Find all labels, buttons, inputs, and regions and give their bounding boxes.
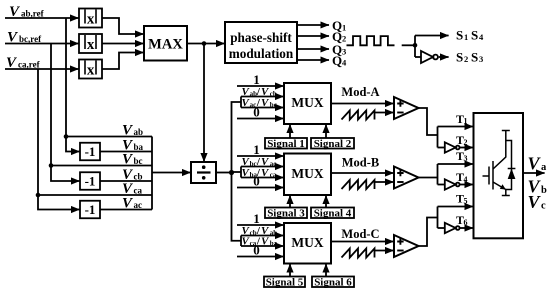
svg-text:1: 1 — [253, 72, 260, 87]
svg-text:Signal 6: Signal 6 — [314, 276, 352, 288]
wire tap Vab down to -1 block 1 — [66, 18, 80, 152]
svg-text:b: b — [541, 185, 547, 196]
-1 block 2 — [80, 172, 100, 190]
inverter for S2 S3 — [421, 51, 433, 63]
label |x| 2 — [85, 35, 96, 53]
svg-text:Signal 5: Signal 5 — [266, 276, 304, 288]
wire divider output to MUX bus — [216, 172, 232, 174]
comparator A — [394, 97, 419, 119]
wire sawtooth B to comparator — [375, 181, 394, 183]
MUX-A input Vac/Vbc — [241, 107, 284, 109]
svg-text:3: 3 — [479, 54, 483, 64]
svg-text:bc,ref: bc,ref — [19, 34, 42, 44]
IGBT emitter — [493, 182, 506, 196]
svg-text:Signal 3: Signal 3 — [267, 207, 305, 219]
Signal 6 box — [312, 277, 354, 288]
svg-text:S: S — [471, 28, 478, 43]
junction dot S branch — [413, 43, 418, 48]
bus joining six voltage rows — [151, 137, 153, 210]
abs block |x| 1 — [79, 9, 102, 28]
-1 block 3 — [80, 201, 100, 219]
svg-text:1: 1 — [464, 32, 468, 42]
svg-text:Signal 2: Signal 2 — [314, 138, 352, 150]
wire T2 into inverter — [438, 147, 445, 149]
svg-text:4: 4 — [479, 32, 484, 42]
wire T4 into inverter — [438, 184, 445, 186]
svg-text:ba: ba — [134, 142, 144, 152]
svg-text:4: 4 — [464, 175, 468, 184]
square wave symbol — [347, 36, 395, 45]
svg-text:S: S — [456, 28, 463, 43]
svg-text:x: x — [87, 37, 95, 53]
wire Mod-B to comparator B — [331, 172, 394, 174]
svg-text:4: 4 — [342, 58, 347, 68]
wire Vca,ref input — [5, 68, 79, 70]
wire Vab,ref input — [5, 17, 79, 19]
wire Mod-C to comparator C — [331, 241, 394, 243]
wire Vca row — [38, 194, 152, 196]
Signal 2 box — [311, 138, 354, 149]
MAX block — [144, 26, 187, 61]
label |x| 1 — [85, 10, 96, 28]
abs block |x| 3 — [79, 60, 102, 79]
wire into S inverter — [415, 56, 421, 58]
inverter T2 — [445, 142, 456, 152]
Signal 3 box — [265, 208, 307, 219]
label comparator B plus — [397, 170, 403, 176]
wire Signal6 to MUX-C — [325, 264, 327, 277]
MUX-A block — [284, 83, 331, 124]
svg-text:c: c — [541, 201, 546, 212]
wire splitter B vertical — [437, 164, 439, 185]
wire T5 — [438, 206, 474, 208]
stub to MUX-B fractions — [232, 171, 242, 173]
wire Vcb row — [100, 180, 152, 182]
wire comparator B output — [419, 177, 438, 179]
MUX distribution bus — [232, 102, 242, 173]
wire splitter C vertical — [437, 207, 439, 229]
wire T2 — [460, 147, 474, 149]
junction dot divider output — [229, 170, 234, 175]
svg-text:ca: ca — [134, 185, 143, 195]
wire Q3 — [297, 48, 329, 50]
MUX-C input 0 — [237, 256, 284, 258]
wire bus to divider — [152, 172, 191, 174]
svg-text:modulation: modulation — [229, 46, 294, 61]
svg-text:1: 1 — [253, 142, 260, 157]
svg-text:MUX: MUX — [291, 235, 323, 250]
svg-text:cb: cb — [134, 171, 143, 181]
wire to S2 S3 — [439, 56, 449, 58]
wire T3 — [438, 163, 474, 165]
label |x| 3 — [85, 61, 96, 79]
wire Signal5 to MUX-C — [289, 264, 291, 277]
wire Signal3 to MUX-B — [289, 195, 291, 207]
wire splitter A vertical — [437, 127, 439, 148]
svg-text:phase-shift: phase-shift — [230, 30, 292, 45]
svg-text:Mod-B: Mod-B — [342, 156, 380, 170]
svg-text:x: x — [87, 11, 95, 27]
freewheeling diode branch — [506, 141, 512, 190]
IGBT emitter arrowhead — [500, 184, 506, 189]
converter block — [474, 113, 524, 238]
Signal 4 box — [311, 208, 354, 219]
MUX-A input Vab/Vcb — [241, 96, 284, 98]
wire Q4 — [297, 59, 329, 61]
svg-text:1: 1 — [464, 116, 468, 125]
wire T4 — [460, 184, 474, 186]
wire S branch vertical — [414, 36, 416, 58]
sawtooth carrier A — [342, 111, 375, 120]
svg-text:Signal 4: Signal 4 — [314, 207, 352, 219]
svg-text:2: 2 — [464, 138, 468, 147]
svg-text:a: a — [541, 162, 547, 173]
phase-shift modulation block — [225, 22, 297, 63]
wire MAX to phase-shift modulation — [187, 43, 225, 45]
wire Q1 — [297, 24, 329, 26]
MUX-B input 1 — [237, 155, 284, 157]
label divider sign — [197, 165, 211, 179]
svg-text:-1: -1 — [85, 202, 96, 217]
svg-text:ca,ref: ca,ref — [18, 60, 41, 70]
wire abs3 to MAX — [102, 53, 144, 70]
wire abs1 to MAX — [102, 18, 144, 34]
IGBT gate bar — [488, 167, 490, 185]
wire Vac row — [100, 209, 152, 211]
label comparator C plus — [397, 238, 403, 244]
svg-text:S: S — [471, 50, 478, 65]
svg-text:1: 1 — [253, 211, 260, 226]
inverter T6 — [445, 223, 456, 233]
svg-text:0: 0 — [253, 105, 260, 120]
svg-text:3: 3 — [464, 154, 468, 163]
svg-text:MUX: MUX — [291, 166, 323, 181]
junction dot Vbc tap — [49, 163, 54, 168]
svg-text:bc: bc — [134, 156, 143, 166]
wire T1 — [438, 126, 474, 128]
svg-text:0: 0 — [253, 243, 260, 258]
divider block — [191, 162, 216, 183]
svg-text:Mod-C: Mod-C — [341, 227, 379, 241]
IGBT emitter tick — [502, 195, 510, 197]
Signal 1 box — [265, 138, 307, 149]
svg-text:x: x — [87, 62, 95, 78]
svg-text:-1: -1 — [85, 173, 96, 188]
label comparator B minus — [397, 181, 403, 183]
wire into S branch — [402, 44, 415, 46]
wire abs2 to MAX — [102, 43, 144, 45]
MUX-B block — [284, 154, 331, 196]
abs block |x| 2 — [79, 34, 102, 53]
svg-text:Mod-A: Mod-A — [341, 85, 379, 99]
diode triangle — [508, 169, 516, 180]
wire Signal1 to MUX-A — [289, 124, 291, 138]
IGBT gate lead — [483, 175, 490, 177]
wire T6 — [460, 227, 474, 229]
svg-text:-1: -1 — [85, 144, 96, 159]
wire sawtooth C to comparator — [375, 250, 394, 252]
wire comparator A output jog — [419, 108, 438, 135]
label comparator A minus — [397, 112, 403, 114]
wire Va output — [523, 172, 545, 174]
sawtooth carrier C — [342, 249, 375, 258]
svg-text:3: 3 — [342, 47, 346, 57]
MUX-B input Vbc/Vac — [241, 166, 284, 168]
wire MAX output down to divider — [203, 44, 205, 162]
junction dot Vab tap — [64, 134, 69, 139]
svg-text:Q: Q — [332, 53, 342, 68]
svg-text:MAX: MAX — [148, 37, 183, 53]
wire Vba row — [100, 151, 152, 153]
comparator C — [394, 235, 419, 257]
label comparator C minus — [397, 250, 403, 252]
-1 block 1 — [80, 143, 100, 161]
connector MUX-C fraction wires — [240, 236, 242, 247]
IGBT collector — [493, 131, 506, 170]
connector MUX-B fraction wires — [240, 167, 242, 178]
MUX-C block — [284, 223, 331, 264]
sawtooth carrier B — [342, 180, 375, 189]
svg-text:ab,ref: ab,ref — [21, 9, 45, 19]
MUX-B input 0 — [237, 187, 284, 189]
MUX-A input 0 — [237, 118, 284, 120]
comparator B — [394, 167, 419, 189]
wire Vab row — [66, 136, 152, 138]
svg-text:1: 1 — [342, 23, 346, 33]
MUX-A input 1 — [237, 85, 284, 87]
svg-text:S: S — [456, 50, 463, 65]
wire tap Vbc down to -1 block 2 — [51, 44, 80, 182]
wire tap Vca down to -1 block 3 — [38, 69, 80, 210]
svg-text:2: 2 — [464, 54, 468, 64]
MUX-C input 1 — [237, 224, 284, 226]
wire Mod-A to comparator A — [331, 103, 394, 105]
junction dot MAX output — [202, 41, 207, 46]
wire sawtooth A to comparator — [375, 112, 394, 114]
svg-text:MUX: MUX — [291, 95, 323, 110]
svg-text:ac: ac — [134, 200, 143, 210]
wire to S1 S4 — [415, 35, 449, 37]
svg-text:6: 6 — [464, 218, 468, 227]
svg-text:ab: ab — [134, 127, 144, 137]
wire T6 into inverter — [438, 227, 445, 229]
connector MUX-A fraction wires — [240, 97, 242, 108]
diode cathode bar — [508, 168, 516, 170]
inverter T4 — [445, 179, 456, 189]
MUX-C input Vcb/Vab — [241, 235, 284, 237]
IGBT collector tick — [502, 130, 510, 132]
label comparator A plus — [397, 100, 403, 106]
junction dot Vca tap — [36, 193, 41, 198]
IGBT body bar — [492, 161, 494, 190]
MUX-B input Vba/Vca — [241, 177, 284, 179]
svg-text:0: 0 — [253, 174, 260, 189]
Signal 5 box — [264, 277, 305, 288]
wire Signal4 to MUX-B — [325, 195, 327, 207]
svg-text:5: 5 — [464, 196, 468, 205]
MUX-C input Vca/Vba — [241, 245, 284, 247]
wire Signal2 to MUX-A — [325, 124, 327, 138]
wire Q2 — [297, 35, 329, 37]
svg-text:2: 2 — [342, 34, 346, 44]
wire Vbc row — [51, 165, 152, 167]
wire comparator C output jog — [419, 218, 438, 247]
svg-text:V: V — [528, 154, 542, 174]
wire Vbc,ref input — [5, 43, 79, 45]
svg-text:V: V — [528, 192, 542, 212]
svg-text:Signal 1: Signal 1 — [267, 138, 305, 150]
